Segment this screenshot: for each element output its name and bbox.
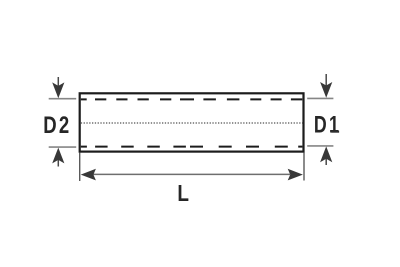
dimension D2 upper arrow: [52, 77, 64, 98]
dimension L line with arrows: [81, 169, 303, 181]
label D2: [43, 112, 71, 139]
dimension L right extension line: [303, 153, 305, 181]
tube body outline: [80, 93, 304, 151]
label D1: [314, 112, 341, 139]
dimension D2 lower arrow: [52, 148, 64, 167]
dimension L left extension line: [79, 153, 81, 182]
inner bore bottom dashed line: [81, 146, 303, 148]
dimension D1 top tick: [307, 97, 333, 99]
center axis dotted line: [81, 122, 303, 124]
dimension D1 upper arrow: [320, 74, 332, 98]
dimension D1 bottom tick: [307, 145, 333, 147]
label L: [177, 180, 189, 206]
svg-text:D2: D2: [43, 112, 71, 139]
dimension D2 top tick: [49, 98, 76, 100]
dimension D1 lower arrow: [320, 146, 332, 165]
inner bore top dashed line: [81, 98, 302, 100]
svg-text:L: L: [177, 180, 189, 206]
dimension D2 bottom tick: [49, 146, 76, 148]
svg-text:D1: D1: [314, 112, 341, 139]
